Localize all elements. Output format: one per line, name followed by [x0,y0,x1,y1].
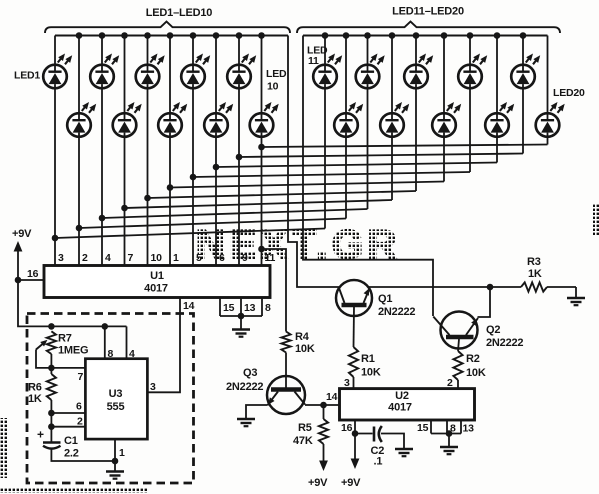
svg-text:13: 13 [463,423,475,435]
svg-text:R5: R5 [298,422,312,434]
pin stub U1 pin13 [240,298,242,317]
wire step LED17 to col 7 [193,172,470,177]
wire column LED17 [469,36,471,173]
svg-text:10K: 10K [361,367,381,379]
junction bus1 col5 [144,32,151,39]
label C2 [371,445,385,468]
pin label U1 pin 6 [219,252,225,264]
wire column LED18 [496,36,498,163]
power +9V below R5 [308,461,328,490]
svg-text:.1: .1 [374,456,383,468]
pin label U2 pin 15 [417,422,429,434]
svg-text:LED20: LED20 [553,87,585,99]
LED LED3 [90,54,119,89]
wire R2 to U2 pin2 [457,380,459,389]
LED LED18 [485,102,514,137]
svg-text:6: 6 [76,401,82,413]
junction U3 pin1 ground node [112,458,119,465]
IC U3 555 [85,359,147,439]
pin label U3 pin 7 [78,371,84,383]
svg-text:4: 4 [105,252,111,264]
junction step 14 on column 4 [121,205,128,212]
label R3 [527,256,542,280]
resistor R4 [281,332,290,353]
junction pin6 node [48,410,55,417]
svg-text:+9V: +9V [12,228,32,240]
junction step 11 on column 1 [52,235,59,242]
junction R7 top [48,323,55,330]
label LED11-LED20 group title [392,6,464,18]
wire column LED2 to U1 pin 2 [78,36,80,266]
svg-text:10K: 10K [466,367,486,379]
svg-text:10: 10 [151,252,163,264]
ground after C2 [395,449,413,456]
junction bus2 LED18 column [494,32,501,39]
wire column LED12 [345,36,347,219]
IC U2 4017 [340,389,475,420]
transistor Q3 2N2222 [267,376,305,414]
pin label U2 pin 2 [447,377,453,389]
wire node to U3 pin2 [51,426,85,428]
pin label U3 pin 8 [108,348,114,360]
svg-text:+9V: +9V [308,477,328,489]
pin label U1 pin 3 [58,252,64,264]
LED LED4 [113,102,142,137]
LED LED6 [158,102,187,137]
label C1 [64,435,79,460]
svg-text:16: 16 [27,268,39,280]
pin label U2 pin 13 [463,423,475,435]
resistor R2 [453,351,462,380]
junction bus1 col10 [258,32,265,39]
LED LED11 [313,54,342,89]
LED LED5 [136,54,165,89]
wire pin11 to R4 [262,249,287,332]
transistor Q2 2N2222 [433,312,478,349]
svg-text:13: 13 [244,302,256,314]
wire node to U3 pin6 [51,412,85,414]
pin label U3 pin 4 [129,348,135,360]
svg-text:5: 5 [196,252,202,264]
resistor R6 [47,354,56,400]
junction pin2 node [48,423,55,430]
svg-text:1MEG: 1MEG [58,345,88,357]
bracket LED11-LED20 [297,22,560,34]
svg-text:R4: R4 [295,331,310,343]
wire step LED11 to col 1 [55,229,325,239]
wire Q1 base to R1 [353,307,356,347]
junction bus2 LED16 column [441,32,448,39]
svg-text:14: 14 [183,300,195,312]
resistor R5 [319,405,328,463]
ground after R3 [567,287,585,305]
pin label U2 pin 14 [326,391,338,403]
svg-text:2.2: 2.2 [64,448,79,460]
wire step LED18 to col 8 [216,163,497,168]
junction U2 pin16 node [352,430,359,437]
wire step LED13 to col 3 [102,209,368,218]
wire column LED15 [415,36,417,192]
wire column LED11 [324,36,326,229]
svg-text:+: + [37,428,44,442]
pin label U1 pin 10 [151,252,163,264]
pin label U1 pin 11 [265,252,276,264]
wire step LED15 to col 5 [148,191,417,198]
wire node to U3 pin7 [51,367,85,369]
junction U2 pin14 node [320,402,327,409]
pin stub U3 pin4 [126,326,128,358]
capacitor C2 [374,426,382,442]
transistor Q1 2N2222 [336,280,372,316]
svg-text:2N2222: 2N2222 [486,337,523,349]
wire step LED14 to col 4 [125,200,393,208]
svg-text:15: 15 [417,422,429,434]
svg-text:2: 2 [77,416,83,428]
wire Q3 emitter to ground [246,405,268,419]
label R5 [293,422,313,447]
pin label U1 pin 15 [223,302,235,314]
junction bus1 col6 [167,32,174,39]
label R4 [295,331,315,355]
svg-text:3: 3 [150,381,156,393]
label Q1 [378,293,415,318]
junction bus2 LED19 column [520,32,527,39]
wire R6 to pin6 node [50,400,52,413]
pin label U1 pin 7 [128,252,134,264]
wire Q1 emitter to R3 node [369,286,491,288]
wire column LED14 [391,36,393,201]
svg-text:7: 7 [78,371,84,383]
label C1 plus [37,428,44,442]
LED LED20 [536,102,565,137]
LED LED16 [432,102,461,137]
svg-text:R2: R2 [466,353,480,365]
pin label U3 pin 3 [150,381,156,393]
pin label U1 pin 5 [196,252,202,264]
junction step 16 on column 6 [167,184,174,191]
label R6 [28,382,42,406]
svg-text:U1: U1 [150,270,164,282]
junction step 18 on column 8 [213,164,220,171]
LED LED9 [227,54,256,89]
junction bus2 LED12 column [343,32,350,39]
svg-text:10: 10 [267,81,279,93]
ground under U1 [232,316,250,337]
wire column LED9 to U1 pin 9 [238,36,240,266]
svg-text:+9V: +9V [341,477,361,489]
wire pin2 node to C1 [50,427,52,443]
svg-text:4017: 4017 [388,402,412,414]
wire column LED20 [547,36,549,145]
junction R7 R6 wiper node [48,365,55,372]
LED LED15 [404,54,433,89]
wire +9V rail down to 555 box [18,280,127,326]
wire U1 pin16 to +9V rail [18,279,44,281]
wire step LED12 to col 2 [79,219,346,229]
ground Q3 emitter [237,419,255,426]
label LED10 [266,68,287,93]
svg-text:LED: LED [266,68,287,80]
svg-text:R1: R1 [361,353,375,365]
svg-text:2N2222: 2N2222 [378,306,415,318]
svg-text:Q1: Q1 [378,293,392,305]
junction bus2 LED13 column [364,32,371,39]
wire column LED6 to U1 pin 1 [169,36,171,266]
wire bus group1 anode rail [55,35,288,37]
svg-text:1K: 1K [528,268,542,280]
junction bus1 col9 [236,32,243,39]
pin stub U1 pin8 [261,298,263,317]
junction step 12 on column 2 [76,225,83,232]
capacitor C1 [43,443,61,449]
LED LED12 [334,102,363,137]
svg-text:16: 16 [341,422,353,434]
wire pin16 to C2 [355,433,373,435]
wire column LED13 [367,36,369,210]
resistor R1 [349,347,358,377]
svg-text:6: 6 [219,252,225,264]
pin stub U2 pin15 [430,420,432,434]
label LED20 [553,87,585,99]
junction step 20 on column 10 [258,144,265,151]
wire C2 to ground [381,434,404,449]
wire column LED7 to U1 pin 5 [192,36,194,266]
wire column LED19 [522,36,524,154]
decorative [0,203,599,493]
pin label U1 pin 1 [173,252,179,264]
LED LED19 [511,54,540,89]
pin label U2 pin 16 [341,422,353,434]
svg-text:47K: 47K [293,435,313,447]
bracket LED1-LED10 [45,22,290,34]
LED LED8 [204,102,233,137]
junction step 17 on column 7 [190,174,197,181]
junction U3 pin8 top [102,323,109,330]
power +9V top left [12,228,32,280]
pin stub U3 pin8 [104,326,106,358]
junction U1 pin11 tap [258,246,265,253]
junction bus1 col3 [99,32,106,39]
svg-text:8: 8 [265,302,271,314]
wire R4 to Q3 base [285,353,287,389]
power +9V below pin16 [341,477,361,489]
wire column LED1 to U1 pin 3 [54,36,56,266]
IC U1 4017 [44,266,270,298]
junction U2 ground node [446,430,453,437]
LED LED1 [43,54,72,89]
pin label U1 pin 16 [27,268,39,280]
svg-text:11: 11 [265,252,276,264]
wire column LED10 to U1 pin 11 [261,36,263,266]
junction step 19 on column 9 [236,154,243,161]
junction R3 node [487,284,494,291]
junction bus1 col7 [190,32,197,39]
wire pin6 node down [50,413,52,427]
wire pin16 to +9V [351,434,360,470]
svg-text:14: 14 [326,391,338,403]
LED LED10 [250,102,279,137]
dashed enclosure 555 timer [27,314,194,484]
svg-text:R6: R6 [28,382,42,394]
LED LED7 [181,54,210,89]
svg-text:Q3: Q3 [243,367,257,379]
junction bus2 LED15 column [413,32,420,39]
pin label U2 pin 3 [344,377,350,389]
wire bank2 bus to Q2 collector [303,36,433,317]
svg-text:2: 2 [82,252,88,264]
pin stub U2 pin8 [446,420,448,434]
wire tie U1 pins 15 13 8 [220,315,262,317]
label LED11 [307,45,328,68]
svg-text:LED11–LED20: LED11–LED20 [392,6,464,18]
wire column LED5 to U1 pin 10 [147,36,149,266]
pin stub U3 pin1 [114,439,116,461]
LED LED13 [356,54,385,89]
LED LED17 [458,54,487,89]
wire column LED16 [443,36,445,182]
wire Q2 base to R2 [458,339,459,351]
svg-text:7: 7 [128,252,134,264]
junction bus1 col2 [76,32,83,39]
pin label U3 pin 2 [77,416,83,428]
wire step LED19 to col 9 [239,154,523,158]
svg-text:R7: R7 [58,333,72,345]
svg-text:U3: U3 [109,388,123,400]
label LED1-LED10 group title [146,7,213,19]
svg-text:555: 555 [107,401,125,413]
pin label U1 pin 9 [242,252,248,264]
svg-text:LED1–LED10: LED1–LED10 [146,7,213,19]
svg-text:R3: R3 [527,256,541,268]
svg-text:2N2222: 2N2222 [226,381,263,393]
svg-text:1K: 1K [28,393,42,405]
wire C1 to ground rail [51,449,115,461]
ground under U2 [440,434,458,455]
junction bus1 col8 [213,32,220,39]
wire R1 to U2 pin3 [353,377,355,389]
LED LED14 [380,102,409,137]
pin label U3 pin 6 [76,401,82,413]
svg-text:10K: 10K [295,343,315,355]
junction step 15 on column 5 [144,195,151,202]
pin label U3 pin 1 [119,447,125,459]
pin label U2 pin 8 [450,423,456,435]
svg-text:C1: C1 [64,435,78,447]
wire U3 pin3 stub [146,391,149,393]
junction bus1 col4 [121,32,128,39]
wire step LED20 to col 10 [262,145,548,148]
wire bank1 bus to Q1 collector [288,36,340,288]
junction bus2 LED11 column [322,32,329,39]
label Q3 [226,367,263,393]
wire step LED16 to col 6 [170,182,444,188]
svg-text:LED1: LED1 [14,70,40,82]
svg-text:15: 15 [223,302,235,314]
junction bus2 LED14 column [389,32,396,39]
label R2 [466,353,486,379]
pin label U1 pin 14 [183,300,195,312]
svg-text:U2: U2 [395,390,409,402]
pin label U1 pin 13 [244,302,256,314]
wire Q3 collector to U2 pin14 [305,404,340,406]
pin label U1 pin 8 [265,302,271,314]
pin label U1 pin 2 [82,252,88,264]
wire tie U2 pins 15 8 13 [431,433,461,435]
svg-text:4017: 4017 [144,283,168,295]
junction bus2 LED17 column [467,32,474,39]
LED LED2 [67,102,96,137]
wire column LED4 to U1 pin 7 [124,36,126,266]
wire R3 node to Q2 emitter [478,287,491,317]
svg-text:3: 3 [58,252,64,264]
label R7 [58,333,88,357]
label LED1 [14,70,40,82]
pin stub U1 pin15 [219,298,221,317]
wire bus group2 anode rail [303,35,548,37]
svg-text:1: 1 [119,447,125,459]
svg-text:Q2: Q2 [486,324,500,336]
svg-text:9: 9 [242,252,248,264]
wire U3 pin3 to U1 pin14 [148,298,181,393]
resistor R3 [490,282,576,291]
label R1 [361,353,381,379]
wire column LED8 to U1 pin 6 [215,36,217,266]
svg-text:11: 11 [308,55,319,67]
junction U1 ground node [238,313,245,320]
label Q2 [486,324,523,349]
potentiometer R7 [36,331,56,368]
ground U3 pin1 [106,461,124,479]
pin stub U2 pin13 [460,420,462,434]
wire column LED3 to U1 pin 4 [101,36,103,266]
pin label U1 pin 4 [105,252,111,264]
pin stub U2 pin16 [354,420,356,434]
junction step 13 on column 3 [99,215,106,222]
junction +9V rail pin16 [15,277,22,284]
svg-text:1: 1 [173,252,179,264]
